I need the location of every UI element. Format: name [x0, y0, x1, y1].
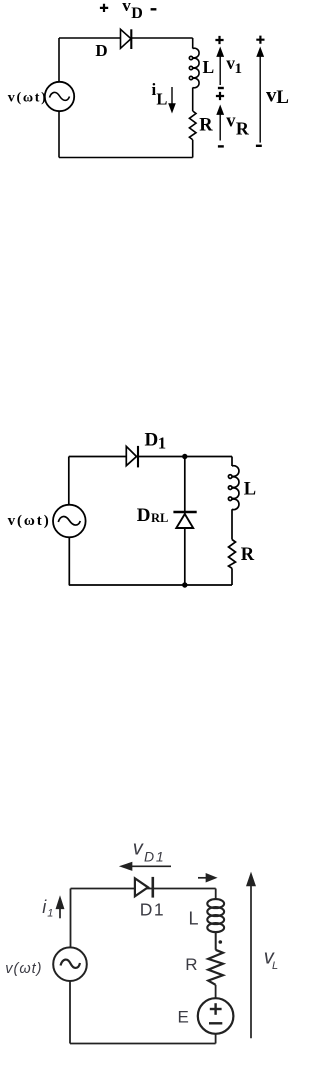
svg-text:v: v [133, 837, 144, 859]
svg-text:D1: D1 [144, 849, 166, 865]
svg-text:L: L [272, 960, 278, 972]
svg-text:R: R [241, 545, 255, 565]
svg-text:v: v [226, 112, 236, 132]
svg-text:L: L [276, 87, 289, 108]
svg-text:1: 1 [235, 61, 243, 77]
svg-text:v(ωt): v(ωt) [8, 91, 48, 106]
svg-text:L: L [156, 89, 167, 108]
svg-text:v: v [122, 0, 131, 15]
svg-text:R: R [199, 115, 213, 135]
svg-text:L: L [244, 480, 256, 500]
svg-text:R: R [236, 119, 250, 139]
svg-text:v(ωt): v(ωt) [5, 961, 42, 977]
svg-text:D: D [137, 505, 151, 526]
svg-text:D: D [95, 41, 107, 60]
svg-text:RL: RL [151, 511, 168, 525]
svg-text:R: R [185, 955, 197, 974]
svg-text:v(ωt): v(ωt) [8, 513, 51, 529]
svg-text:D: D [145, 429, 159, 450]
svg-text:L: L [203, 57, 215, 77]
svg-text:D1: D1 [140, 900, 165, 920]
svg-text:L: L [189, 908, 199, 928]
svg-text:1: 1 [158, 434, 166, 453]
svg-text:E: E [178, 1007, 189, 1026]
svg-text:D: D [131, 5, 143, 22]
svg-text:1: 1 [47, 908, 53, 920]
